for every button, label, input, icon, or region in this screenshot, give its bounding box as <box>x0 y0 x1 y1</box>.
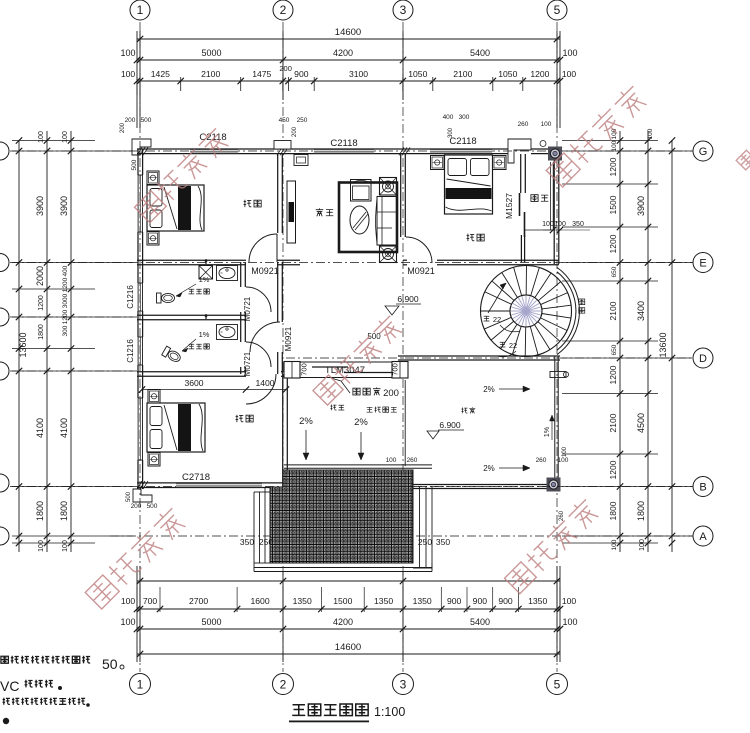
watermark bottom-right <box>503 496 601 594</box>
wall bath divider <box>137 314 246 316</box>
svg-text:700: 700 <box>143 596 158 606</box>
svg-text:1350: 1350 <box>293 596 312 606</box>
corner hatch pier3 <box>399 147 404 155</box>
window C1216 bath2 <box>137 337 139 365</box>
svg-text:900: 900 <box>473 596 488 606</box>
note line1 <box>1 656 8 663</box>
svg-text:1425: 1425 <box>151 69 170 79</box>
axis circle left (cut) <box>0 474 9 492</box>
svg-text:G: G <box>699 146 708 158</box>
label lutai <box>330 405 336 411</box>
svg-text:300: 300 <box>62 325 69 336</box>
svg-text:M0721: M0721 <box>243 296 252 321</box>
axis circle left (cut) <box>0 362 9 380</box>
svg-text:1200: 1200 <box>608 234 618 253</box>
svg-text:500: 500 <box>131 159 138 170</box>
dim line row3 top (fine dims) <box>137 80 560 82</box>
svg-text:2100: 2100 <box>608 413 618 432</box>
svg-text:3: 3 <box>400 3 407 17</box>
svg-text:1475: 1475 <box>252 69 271 79</box>
wall row D <box>398 355 560 357</box>
lutai right rail <box>404 380 406 466</box>
svg-text:4100: 4100 <box>35 418 45 438</box>
nightstand b2 left <box>431 156 445 170</box>
wall bottom bedroom3 <box>137 482 176 484</box>
room label bedroom3 <box>236 415 244 422</box>
svg-text:5400: 5400 <box>470 617 490 627</box>
svg-text:1350: 1350 <box>528 596 547 606</box>
wall balcony <box>520 154 522 193</box>
toilet bath1 <box>157 293 175 303</box>
tv cabinet <box>287 181 296 243</box>
svg-text:3100: 3100 <box>349 69 368 79</box>
svg-text:500: 500 <box>126 491 132 502</box>
axis circle left (cut) <box>0 254 9 272</box>
svg-text:3600: 3600 <box>184 378 203 388</box>
axis circle 2 top <box>273 0 293 20</box>
dim line 14600 top <box>137 38 560 40</box>
right dim verticals <box>619 131 621 552</box>
svg-text:2%: 2% <box>483 464 495 473</box>
wall terrace edge <box>284 464 432 466</box>
door stub TLM left <box>284 362 300 379</box>
dim line row1 bottom (fine dims) <box>137 608 560 610</box>
svg-text:900: 900 <box>498 596 513 606</box>
svg-text:260: 260 <box>536 457 547 464</box>
axis circle 1 bottom <box>130 674 151 695</box>
nightstand b2 right <box>493 156 507 170</box>
svg-text:350: 350 <box>436 537 450 547</box>
svg-text:1350: 1350 <box>413 596 432 606</box>
axis line B <box>10 486 693 488</box>
svg-text:260: 260 <box>518 121 529 128</box>
svg-text:200: 200 <box>125 117 136 124</box>
svg-text:5000: 5000 <box>201 617 221 627</box>
svg-text:1800: 1800 <box>636 501 646 521</box>
svg-text:C2718: C2718 <box>182 472 210 483</box>
room label living <box>316 208 324 216</box>
svg-text:2: 2 <box>280 3 287 17</box>
dim 3600 1400 bedroom3 <box>142 389 286 391</box>
svg-text:100: 100 <box>541 121 552 128</box>
svg-text:5000: 5000 <box>201 48 221 58</box>
svg-text:1200: 1200 <box>62 309 69 324</box>
svg-text:100: 100 <box>121 69 136 79</box>
door arc bath1 M0721 <box>246 287 271 312</box>
svg-text:3400: 3400 <box>636 301 646 321</box>
shower box bath1 <box>199 266 213 280</box>
svg-text:1200: 1200 <box>530 69 549 79</box>
svg-text:C1216: C1216 <box>126 285 135 309</box>
svg-text:200: 200 <box>383 388 399 399</box>
axis line G <box>10 150 693 152</box>
svg-text:2: 2 <box>280 678 287 692</box>
axis circle B right <box>693 477 713 497</box>
svg-text:C2118: C2118 <box>330 138 357 149</box>
svg-text:A: A <box>699 531 707 543</box>
steps right of hatch <box>431 487 433 568</box>
dim line row2 bottom (100 5000 4200 5400 100) <box>137 628 560 630</box>
svg-text:M0921: M0921 <box>407 266 435 276</box>
window C2718 <box>176 483 262 488</box>
svg-text:3900: 3900 <box>636 196 646 216</box>
svg-text:M0921: M0921 <box>284 326 293 351</box>
svg-text:100: 100 <box>562 69 577 79</box>
svg-text:1200: 1200 <box>608 157 618 176</box>
axis circle left (cut) <box>0 308 9 326</box>
end table top <box>380 178 397 196</box>
svg-text:1%: 1% <box>544 427 551 437</box>
column top-right <box>548 147 562 161</box>
left dim verticals <box>18 140 20 552</box>
end table bottom <box>380 246 397 263</box>
svg-text:1800: 1800 <box>608 501 618 520</box>
svg-text:900: 900 <box>294 69 309 79</box>
flue dot bath1 <box>205 259 207 264</box>
svg-text:B: B <box>699 482 706 494</box>
railing bracket right <box>550 372 566 378</box>
svg-text:200: 200 <box>120 122 126 133</box>
railing right lower <box>554 356 556 489</box>
axis circle E right <box>693 253 713 273</box>
dim line row2 top (100 5000 4200 5400 100) <box>134 57 140 63</box>
corner hatch bottom-left <box>137 481 142 489</box>
svg-text:260: 260 <box>407 457 418 464</box>
watermark fragment right edge <box>736 150 750 170</box>
label liangting <box>461 408 467 414</box>
hatch terrace <box>270 470 413 563</box>
axis circle left (cut) <box>0 142 9 160</box>
svg-text:1200: 1200 <box>608 460 618 479</box>
svg-text:100: 100 <box>639 539 646 551</box>
door stub TLM right <box>392 362 408 379</box>
axis line D right <box>286 357 693 359</box>
flue dot bath2 <box>205 314 207 319</box>
svg-text:1500: 1500 <box>333 596 352 606</box>
top extension lines <box>136 31 138 128</box>
svg-text:100: 100 <box>611 140 618 151</box>
svg-text:3900: 3900 <box>35 196 45 216</box>
svg-text:100: 100 <box>121 596 136 606</box>
svg-text:700: 700 <box>391 363 400 376</box>
svg-text:22: 22 <box>509 341 517 350</box>
door TLM3047 sliding <box>300 361 392 363</box>
room label bath1 <box>189 289 195 294</box>
svg-text:1200: 1200 <box>62 277 69 292</box>
wall row B right <box>398 484 560 486</box>
door M1527 slider <box>519 193 521 216</box>
svg-text:100: 100 <box>558 457 569 464</box>
svg-text:100: 100 <box>542 221 554 228</box>
bed bedroom1 <box>147 185 204 231</box>
corner hatch top-left <box>137 147 142 155</box>
watermark center <box>311 313 404 406</box>
balcony inner line <box>524 229 554 231</box>
sink bath1 <box>217 266 238 281</box>
watermark bottom-left <box>83 505 188 610</box>
axis line 5 vertical <box>556 22 558 672</box>
steps left of hatch <box>253 492 255 563</box>
window left bedroom3 <box>137 398 139 460</box>
svg-text:650: 650 <box>611 344 618 355</box>
note bullet <box>3 718 9 724</box>
axis line 2 vertical <box>282 22 284 672</box>
svg-text:13600: 13600 <box>18 332 28 357</box>
dim line 14600 bottom <box>137 653 560 655</box>
svg-text:250: 250 <box>418 537 432 547</box>
parapet bottom-left corner <box>133 489 152 502</box>
svg-text:3000: 3000 <box>62 293 69 308</box>
svg-text:1050: 1050 <box>498 69 517 79</box>
axis line left c3 <box>10 316 137 318</box>
sink bath2 <box>217 325 238 340</box>
axis circle 1 top <box>130 0 150 20</box>
axis line 3 vertical <box>402 22 404 672</box>
svg-text:1400: 1400 <box>255 378 274 388</box>
svg-text:1800: 1800 <box>38 324 45 340</box>
wall bedroom3 top <box>137 371 246 373</box>
nightstand b3 bottom <box>148 453 160 467</box>
svg-text:100: 100 <box>562 596 577 606</box>
bed bedroom2 <box>445 155 493 214</box>
nightstand b1 bottom <box>147 232 159 246</box>
stair entry line <box>480 310 510 312</box>
svg-text:M0721: M0721 <box>243 351 252 376</box>
svg-text:6.900: 6.900 <box>397 294 419 304</box>
svg-text:D: D <box>699 353 707 365</box>
svg-text:200: 200 <box>292 126 298 137</box>
svg-text:1200: 1200 <box>38 295 45 311</box>
svg-text:5: 5 <box>554 678 561 692</box>
axis circle 5 top <box>547 0 567 20</box>
toilet bath2 <box>162 346 183 364</box>
wall right upper <box>553 149 555 264</box>
svg-text:700: 700 <box>300 363 309 376</box>
corner hatch top-right <box>551 147 556 155</box>
svg-text:1: 1 <box>137 678 144 692</box>
svg-text:1800: 1800 <box>35 501 45 521</box>
svg-text:300: 300 <box>448 127 454 138</box>
sofa living <box>377 197 397 246</box>
axis circle 5 bottom <box>547 674 568 695</box>
svg-text:900: 900 <box>447 596 462 606</box>
room label bedroom2 <box>467 234 475 241</box>
axis circle G right <box>693 141 713 161</box>
svg-text:100: 100 <box>62 131 69 143</box>
svg-text:2%: 2% <box>354 417 368 428</box>
svg-text:5: 5 <box>554 3 561 17</box>
nightstand b1 top <box>147 171 159 185</box>
stair arrow <box>488 283 506 313</box>
svg-text:400: 400 <box>443 114 454 121</box>
axis circle 2 bottom <box>273 674 294 695</box>
svg-text:M1527: M1527 <box>504 193 514 219</box>
svg-text:400: 400 <box>62 265 69 276</box>
wall axis3 vertical <box>400 154 402 237</box>
svg-text:250: 250 <box>259 537 273 547</box>
parapet above axis2 <box>274 141 291 150</box>
svg-text:14600: 14600 <box>335 642 361 653</box>
svg-text:350: 350 <box>572 221 584 228</box>
svg-text:100: 100 <box>611 539 618 550</box>
svg-text:200: 200 <box>131 503 142 510</box>
svg-text:4500: 4500 <box>636 413 646 433</box>
room label balcony <box>531 195 538 202</box>
axis circle left (cut) <box>0 527 9 545</box>
svg-text:4200: 4200 <box>333 617 353 627</box>
svg-text:100: 100 <box>120 617 135 627</box>
axis line 1 vertical <box>139 22 141 672</box>
svg-text:C1216: C1216 <box>126 339 135 363</box>
svg-text:500: 500 <box>141 117 152 124</box>
svg-text:1:100: 1:100 <box>374 705 405 719</box>
svg-text:E: E <box>699 258 706 270</box>
curved window bay <box>557 272 576 350</box>
svg-text:450: 450 <box>279 117 290 124</box>
svg-text:1: 1 <box>137 3 144 17</box>
svg-text:2100: 2100 <box>453 69 472 79</box>
bed bedroom3 <box>147 403 205 452</box>
svg-text:500: 500 <box>147 503 158 510</box>
window C2118 top-right <box>430 149 492 154</box>
window label tongchuang <box>579 299 585 305</box>
svg-text:1800: 1800 <box>59 501 69 521</box>
room label bedroom1 <box>244 200 252 207</box>
window C2118 top-left <box>190 149 238 154</box>
svg-text:1600: 1600 <box>250 596 269 606</box>
svg-text:300: 300 <box>459 114 470 121</box>
svg-text:3: 3 <box>400 678 407 692</box>
watermark top-left <box>133 125 231 223</box>
window C2118 top-center <box>314 149 374 154</box>
building bottom reference line <box>137 580 560 582</box>
svg-text:1%: 1% <box>199 275 210 284</box>
svg-text:100: 100 <box>386 457 397 464</box>
svg-text:2100: 2100 <box>608 301 618 320</box>
svg-text:2100: 2100 <box>201 69 220 79</box>
window C1216 bath1 <box>137 283 139 311</box>
svg-text:100: 100 <box>38 131 45 143</box>
wall bedroom3 right <box>282 374 284 488</box>
svg-text:1500: 1500 <box>608 195 618 214</box>
svg-text:100: 100 <box>562 446 568 457</box>
svg-text:650: 650 <box>611 266 618 277</box>
wall row E <box>137 259 246 261</box>
svg-text:1050: 1050 <box>408 69 427 79</box>
svg-text:3900: 3900 <box>59 196 69 216</box>
axis line left d2 <box>10 370 137 372</box>
svg-text:VC: VC <box>0 678 19 694</box>
spiral stair <box>481 266 572 357</box>
svg-text:100: 100 <box>562 617 577 627</box>
door arc corridor M0921 <box>250 322 280 352</box>
svg-text:M0921: M0921 <box>251 266 279 276</box>
steps below hatch <box>254 567 432 569</box>
svg-text:2000: 2000 <box>35 266 45 286</box>
svg-text:200: 200 <box>279 64 292 73</box>
svg-text:100: 100 <box>62 540 69 552</box>
axis circle 3 bottom <box>393 674 414 695</box>
svg-text:5400: 5400 <box>470 48 490 58</box>
flue box living <box>294 155 308 166</box>
svg-text:100: 100 <box>120 48 135 58</box>
parapet top-left corner <box>132 139 151 155</box>
note line3 <box>3 698 10 705</box>
axis circle D right <box>693 348 713 368</box>
title <box>292 705 305 716</box>
nightstand b3 top <box>148 390 160 404</box>
armchair living <box>351 180 372 202</box>
parapet balcony <box>508 139 531 163</box>
svg-text:TLM3047: TLM3047 <box>325 365 365 376</box>
axis circle 3 top <box>393 0 413 20</box>
svg-text:2700: 2700 <box>189 596 208 606</box>
room label bath2 <box>189 344 195 349</box>
svg-text:2%: 2% <box>299 416 313 427</box>
column B right <box>547 478 561 492</box>
label concrete <box>367 407 373 412</box>
svg-text:1200: 1200 <box>608 365 618 384</box>
wall left exterior <box>137 149 139 175</box>
svg-text:4100: 4100 <box>59 418 69 438</box>
label menkan 200 <box>353 388 360 395</box>
door arc bedroom3 <box>246 374 276 404</box>
svg-text:100: 100 <box>562 48 577 58</box>
coffee table <box>350 206 369 234</box>
svg-text:2%: 2% <box>483 385 495 394</box>
door arc bedroom1 M0921 <box>249 234 277 262</box>
axis line A <box>110 535 693 537</box>
door arc bath2 M0721 <box>246 342 271 367</box>
svg-text:100: 100 <box>611 128 618 139</box>
svg-text:250: 250 <box>297 117 308 124</box>
svg-text:350: 350 <box>240 537 254 547</box>
bottom extension lines <box>136 566 138 662</box>
svg-text:22: 22 <box>493 315 501 324</box>
axis circle A right <box>693 526 713 546</box>
svg-text:100: 100 <box>38 540 45 552</box>
wall bath vertical <box>240 262 242 287</box>
svg-text:50: 50 <box>102 656 118 672</box>
wall axis2 vertical <box>277 154 279 233</box>
wall B centerline <box>398 486 560 488</box>
svg-text:1%: 1% <box>199 330 210 339</box>
svg-text:13600: 13600 <box>658 332 668 357</box>
svg-text:6.900: 6.900 <box>439 420 461 430</box>
corner hatch pier2 <box>277 147 282 155</box>
svg-text:1350: 1350 <box>374 596 393 606</box>
svg-text:4200: 4200 <box>333 48 353 58</box>
axis line E <box>10 262 693 264</box>
door arc bedroom2 M0921 <box>406 237 432 263</box>
svg-text:260: 260 <box>559 510 565 521</box>
stair label up22 <box>500 342 506 347</box>
wall top exterior <box>137 148 190 150</box>
rug living <box>339 183 397 253</box>
svg-text:14600: 14600 <box>335 27 361 38</box>
svg-text:100: 100 <box>647 128 654 139</box>
column B mid <box>399 478 413 492</box>
window left bedroom1 <box>137 175 139 232</box>
watermark top-right <box>544 83 649 188</box>
